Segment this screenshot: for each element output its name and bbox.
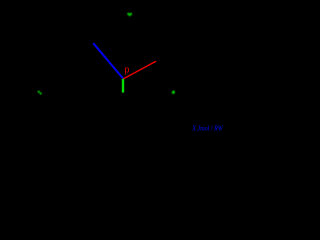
svg-text:p: p bbox=[124, 65, 129, 75]
green marker top (small down arrow) bbox=[127, 13, 132, 17]
red axis line (x) bbox=[124, 62, 156, 79]
svg-text:X Jmol / RW: X Jmol / RW bbox=[191, 125, 224, 132]
green marker right (blob) bbox=[172, 91, 175, 94]
green marker left (diagonal dash) bbox=[38, 91, 42, 95]
green axis line (y) bbox=[122, 79, 124, 93]
3D axis tripod scene on black background bbox=[0, 0, 225, 135]
blue axis line (z) bbox=[94, 44, 123, 79]
